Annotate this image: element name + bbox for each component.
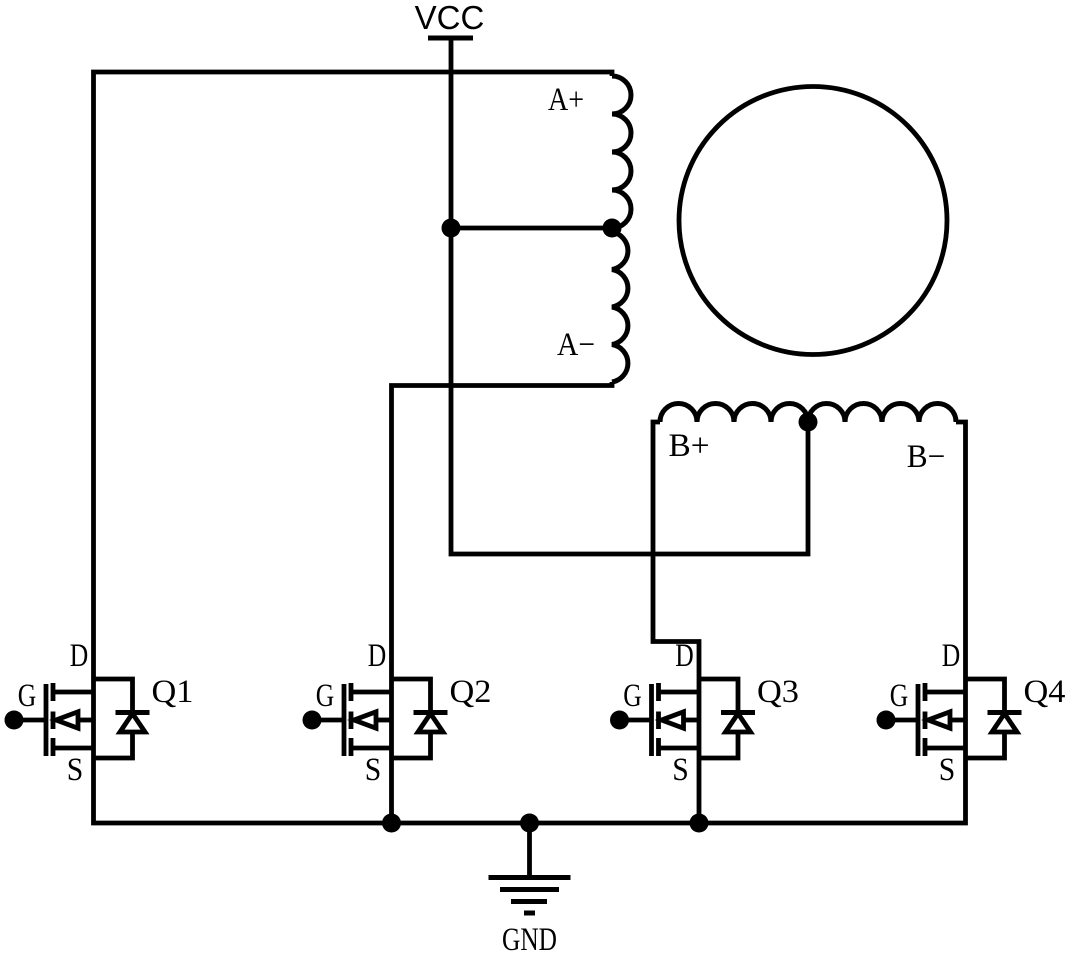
transistor Q4 (N-MOSFET symbol) — [886, 683, 966, 756]
wire: coil A- outer end to Q2 drain — [392, 382, 613, 823]
junction node: VCC line / A center tap — [442, 219, 461, 238]
svg-text:S: S — [672, 752, 689, 788]
svg-text:S: S — [365, 752, 382, 788]
inductor coil B+ (stepper phase B+) — [660, 404, 808, 422]
wire: VCC stem down to center-tap feed, right to coil B center tap — [451, 38, 808, 554]
svg-text:GND: GND — [502, 922, 557, 958]
svg-text:G: G — [623, 678, 642, 714]
body diode of Q4 — [966, 679, 1022, 758]
svg-text:S: S — [67, 752, 84, 788]
junction node: Q3 source on ground bus — [690, 814, 709, 833]
svg-text:VCC: VCC — [415, 0, 485, 36]
transistor Q2 (N-MOSFET symbol) — [312, 683, 392, 756]
wire: coil A center tap to VCC line — [451, 226, 612, 231]
svg-text:D: D — [942, 638, 961, 674]
Q3 gate terminal dot — [610, 711, 629, 730]
body diode of Q2 — [392, 679, 448, 758]
svg-text:A+: A+ — [548, 82, 584, 118]
ground symbol GND — [489, 878, 571, 914]
inductor coil B- (stepper phase B-) — [808, 404, 956, 422]
svg-text:D: D — [368, 638, 387, 674]
transistor Q3 (N-MOSFET symbol) — [620, 683, 700, 756]
wire: ground stem — [527, 823, 532, 878]
transistor Q1 (N-MOSFET symbol) — [14, 683, 94, 756]
body diode of Q1 — [94, 679, 150, 758]
junction node: coil A center tap — [603, 219, 622, 238]
svg-text:D: D — [675, 638, 694, 674]
power symbol VCC: bar — [428, 36, 473, 41]
wire: coil B+ outer end down and over to Q3 drain — [653, 422, 699, 823]
inductor coil A+ (stepper phase A+) — [612, 76, 631, 228]
svg-text:B−: B− — [907, 439, 946, 475]
Q1 gate terminal dot — [5, 711, 24, 730]
Q4 gate terminal dot — [877, 711, 896, 730]
body diode of Q3 — [699, 679, 755, 758]
junction node: ground tap on bus — [520, 814, 539, 833]
svg-text:A−: A− — [557, 327, 595, 363]
svg-text:B+: B+ — [669, 428, 710, 464]
Q2 gate terminal dot — [303, 711, 322, 730]
motor rotor circle — [679, 87, 947, 355]
svg-text:G: G — [890, 678, 909, 714]
inductor coil A- (stepper phase A-) — [612, 232, 628, 382]
svg-text:G: G — [18, 678, 37, 714]
svg-text:D: D — [70, 638, 89, 674]
junction node: Q2 source on ground bus — [382, 814, 401, 833]
svg-text:G: G — [316, 678, 335, 714]
svg-text:S: S — [939, 752, 956, 788]
junction node: coil B center tap — [799, 413, 818, 432]
svg-text:Q4: Q4 — [1024, 674, 1066, 710]
svg-text:Q3: Q3 — [757, 674, 799, 710]
wire: main loop - coil B- end, Q4 drain/source, ground bus, left bus (Q1), top bus, coil A+ lead — [94, 72, 966, 823]
svg-text:Q1: Q1 — [152, 674, 194, 710]
svg-text:Q2: Q2 — [450, 674, 492, 710]
